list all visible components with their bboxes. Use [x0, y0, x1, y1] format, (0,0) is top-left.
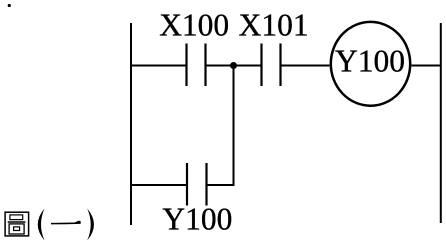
svg-text:X101: X101 [239, 8, 309, 43]
contact X100 [187, 44, 206, 87]
coil Y100 circle [331, 22, 410, 106]
svg-text:X100: X100 [159, 8, 229, 43]
wire: left rail to contact Y100 (branch) [131, 184, 187, 186]
wire: contact Y100 to branch vertical [207, 184, 235, 186]
svg-text:Y100: Y100 [162, 202, 232, 237]
svg-text:Y100: Y100 [335, 44, 405, 79]
caption glyph ) [87, 209, 94, 241]
stray dot (period) top-left [8, 4, 11, 7]
node junction dot [230, 62, 237, 69]
wire: left rail to contact X100 [131, 65, 187, 67]
wire: coil Y100 to right rail [412, 65, 441, 67]
right power rail [440, 23, 442, 223]
caption glyph 圖 [5, 212, 29, 236]
contact X101 [262, 44, 281, 87]
wire: contact X100 to contact X101 [206, 65, 262, 67]
caption glyph ( [38, 209, 45, 241]
caption glyph 一 [51, 221, 81, 225]
wire: branch vertical from junction down [233, 66, 235, 186]
contact Y100 (branch) [187, 163, 207, 206]
wire: contact X101 to coil Y100 [281, 65, 330, 67]
left power rail [130, 23, 132, 225]
